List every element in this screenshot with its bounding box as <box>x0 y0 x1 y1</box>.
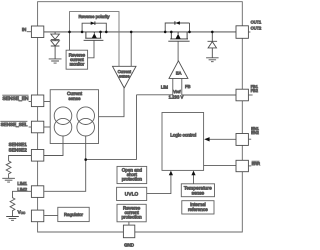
node: rail junction to current sense amp <box>130 31 133 34</box>
box: Open and short protection <box>117 166 147 183</box>
node: rail junction Q1 loop left <box>81 31 84 34</box>
svg-text:UVLO: UVLO <box>125 192 139 197</box>
svg-text:EN2: EN2 <box>251 130 260 135</box>
diode D4 (Q2 body-loop diode) <box>176 21 180 24</box>
resistor R2 (LIM) <box>10 191 31 216</box>
svg-text:IN: IN <box>22 27 26 32</box>
ground (IN ESD) <box>49 59 62 63</box>
diode D2 <box>51 41 60 46</box>
pin SENSE_EN <box>31 95 43 107</box>
svg-text:protection: protection <box>122 215 143 220</box>
wire: temperature sense to logic with up arrow <box>193 175 195 184</box>
wire: Q1 gate to reverse current monitor <box>88 40 94 58</box>
node: rail junction at kelvin bracket <box>68 31 71 34</box>
Q2 body arrow <box>176 34 181 39</box>
svg-text:1.233 V: 1.233 V <box>169 95 184 100</box>
box: Logic control <box>162 113 204 171</box>
wire: reverse-polarity kelvin bracket <box>70 12 120 67</box>
amplifier: current sense triangle <box>113 66 137 88</box>
zener D5 at OUT node <box>208 32 218 58</box>
svg-text:SENSE_EN: SENSE_EN <box>2 96 29 102</box>
pin ERR <box>236 160 248 171</box>
svg-text:sense: sense <box>119 73 130 78</box>
pin FB1/FB2 <box>236 89 248 101</box>
box: Reverse current protection <box>117 204 146 222</box>
svg-text:VCC: VCC <box>18 210 26 216</box>
node: rail junction Q2 left leg <box>170 31 173 34</box>
wire: triangle right input from rail <box>130 32 132 66</box>
wire: EA input stubs <box>173 78 182 95</box>
pin VCC <box>31 210 43 222</box>
pin LIM1/LIM2 <box>31 186 43 198</box>
diode D1 <box>51 34 60 39</box>
svg-text:reference: reference <box>188 207 208 212</box>
box: Reverse current monitor <box>66 50 88 69</box>
svg-text:Regulator: Regulator <box>64 212 84 217</box>
svg-text:SENSE2: SENSE2 <box>9 147 28 152</box>
svg-text:Reverse polarity: Reverse polarity <box>78 14 110 19</box>
pin SENSE_SEL <box>31 121 43 133</box>
node: rail junction Q2 loop left <box>164 31 167 34</box>
op-amp EA (error amplifier) <box>169 61 188 79</box>
current mirror circles right <box>77 107 95 136</box>
svg-text:FB: FB <box>185 84 191 89</box>
svg-text:LIM: LIM <box>161 84 169 89</box>
transistor Q2 structure <box>168 32 189 41</box>
wire: logic to ERR <box>204 165 236 167</box>
pin OUT1/OUT2 <box>236 26 248 39</box>
wire: reverse current protection to GND <box>128 222 130 225</box>
svg-text:Logic control: Logic control <box>170 133 196 138</box>
wire: rail to reverse current monitor <box>69 32 71 50</box>
transistor Q2 load-switch PMOS: diode loop <box>165 23 189 32</box>
pin IN <box>31 26 43 38</box>
ground (zener D5) <box>206 58 219 62</box>
svg-text:LIM2: LIM2 <box>17 187 27 192</box>
box: Temperature sense <box>181 184 214 197</box>
wire: VCC to regulator <box>44 215 58 217</box>
wire: UVLO to logic with up arrow <box>147 175 171 194</box>
svg-text:sense: sense <box>68 96 81 101</box>
wire SENSE_SEL to current sense <box>44 126 50 128</box>
current mirror circles left <box>54 107 72 136</box>
svg-text:OUT1: OUT1 <box>251 20 262 25</box>
wire SENSE_EN to current sense <box>44 101 50 103</box>
svg-text:GND: GND <box>124 243 134 248</box>
wire: triangle output to current sense block <box>99 88 125 117</box>
box: Regulator <box>58 207 89 221</box>
svg-text:FB2: FB2 <box>251 88 259 93</box>
pin GND <box>123 225 134 238</box>
svg-text:EA: EA <box>176 70 182 75</box>
svg-text:OUT2: OUT2 <box>251 26 262 31</box>
node: LIM net junction <box>84 158 87 161</box>
node: rail junction Q1 loop right <box>105 31 108 34</box>
chip border <box>38 2 243 232</box>
resistor R1 (SENSE) <box>6 156 31 179</box>
box: Internal reference <box>182 201 214 214</box>
wire: right mirror to LIM pin <box>44 136 85 191</box>
node: rail junction Q1 right leg <box>99 31 102 34</box>
svg-text:protection: protection <box>122 177 143 182</box>
pin EN1/EN2 <box>236 134 248 146</box>
lead IN <box>27 31 32 33</box>
wire: EN to logic with arrow <box>209 138 236 140</box>
svg-text:SENSE_SEL: SENSE_SEL <box>1 122 28 127</box>
main IN-OUT rail <box>44 31 236 33</box>
Q1 body arrow <box>92 33 97 38</box>
wire: Q2 gate from EA output <box>177 41 179 61</box>
svg-text:monitor: monitor <box>70 61 85 66</box>
transistor Q1 reverse-polarity PMOS: diode loop <box>82 23 106 32</box>
wire: left mirror to SENSE pin <box>44 136 63 156</box>
svg-text:Vref: Vref <box>173 89 181 94</box>
wire: IN ESD diode branch <box>54 32 56 59</box>
box: Current sense <box>50 90 98 144</box>
box: UVLO <box>117 187 147 200</box>
ground (R1) <box>2 178 15 182</box>
node: rail junction at zener D5 <box>211 31 214 34</box>
ground (R2) <box>6 217 19 221</box>
svg-text:LIM1: LIM1 <box>17 181 27 186</box>
transistor Q1 structure <box>84 32 104 40</box>
node: rail junction Q2 loop right <box>188 31 191 34</box>
svg-text:ERR: ERR <box>252 161 261 166</box>
svg-text:sense: sense <box>192 190 205 195</box>
wire: FB net <box>182 94 236 96</box>
diode D3 (Q1 body-loop diode) <box>91 22 95 25</box>
pin SENSE1/SENSE2 <box>31 150 43 162</box>
wire: LIM net to EA <box>86 95 173 160</box>
